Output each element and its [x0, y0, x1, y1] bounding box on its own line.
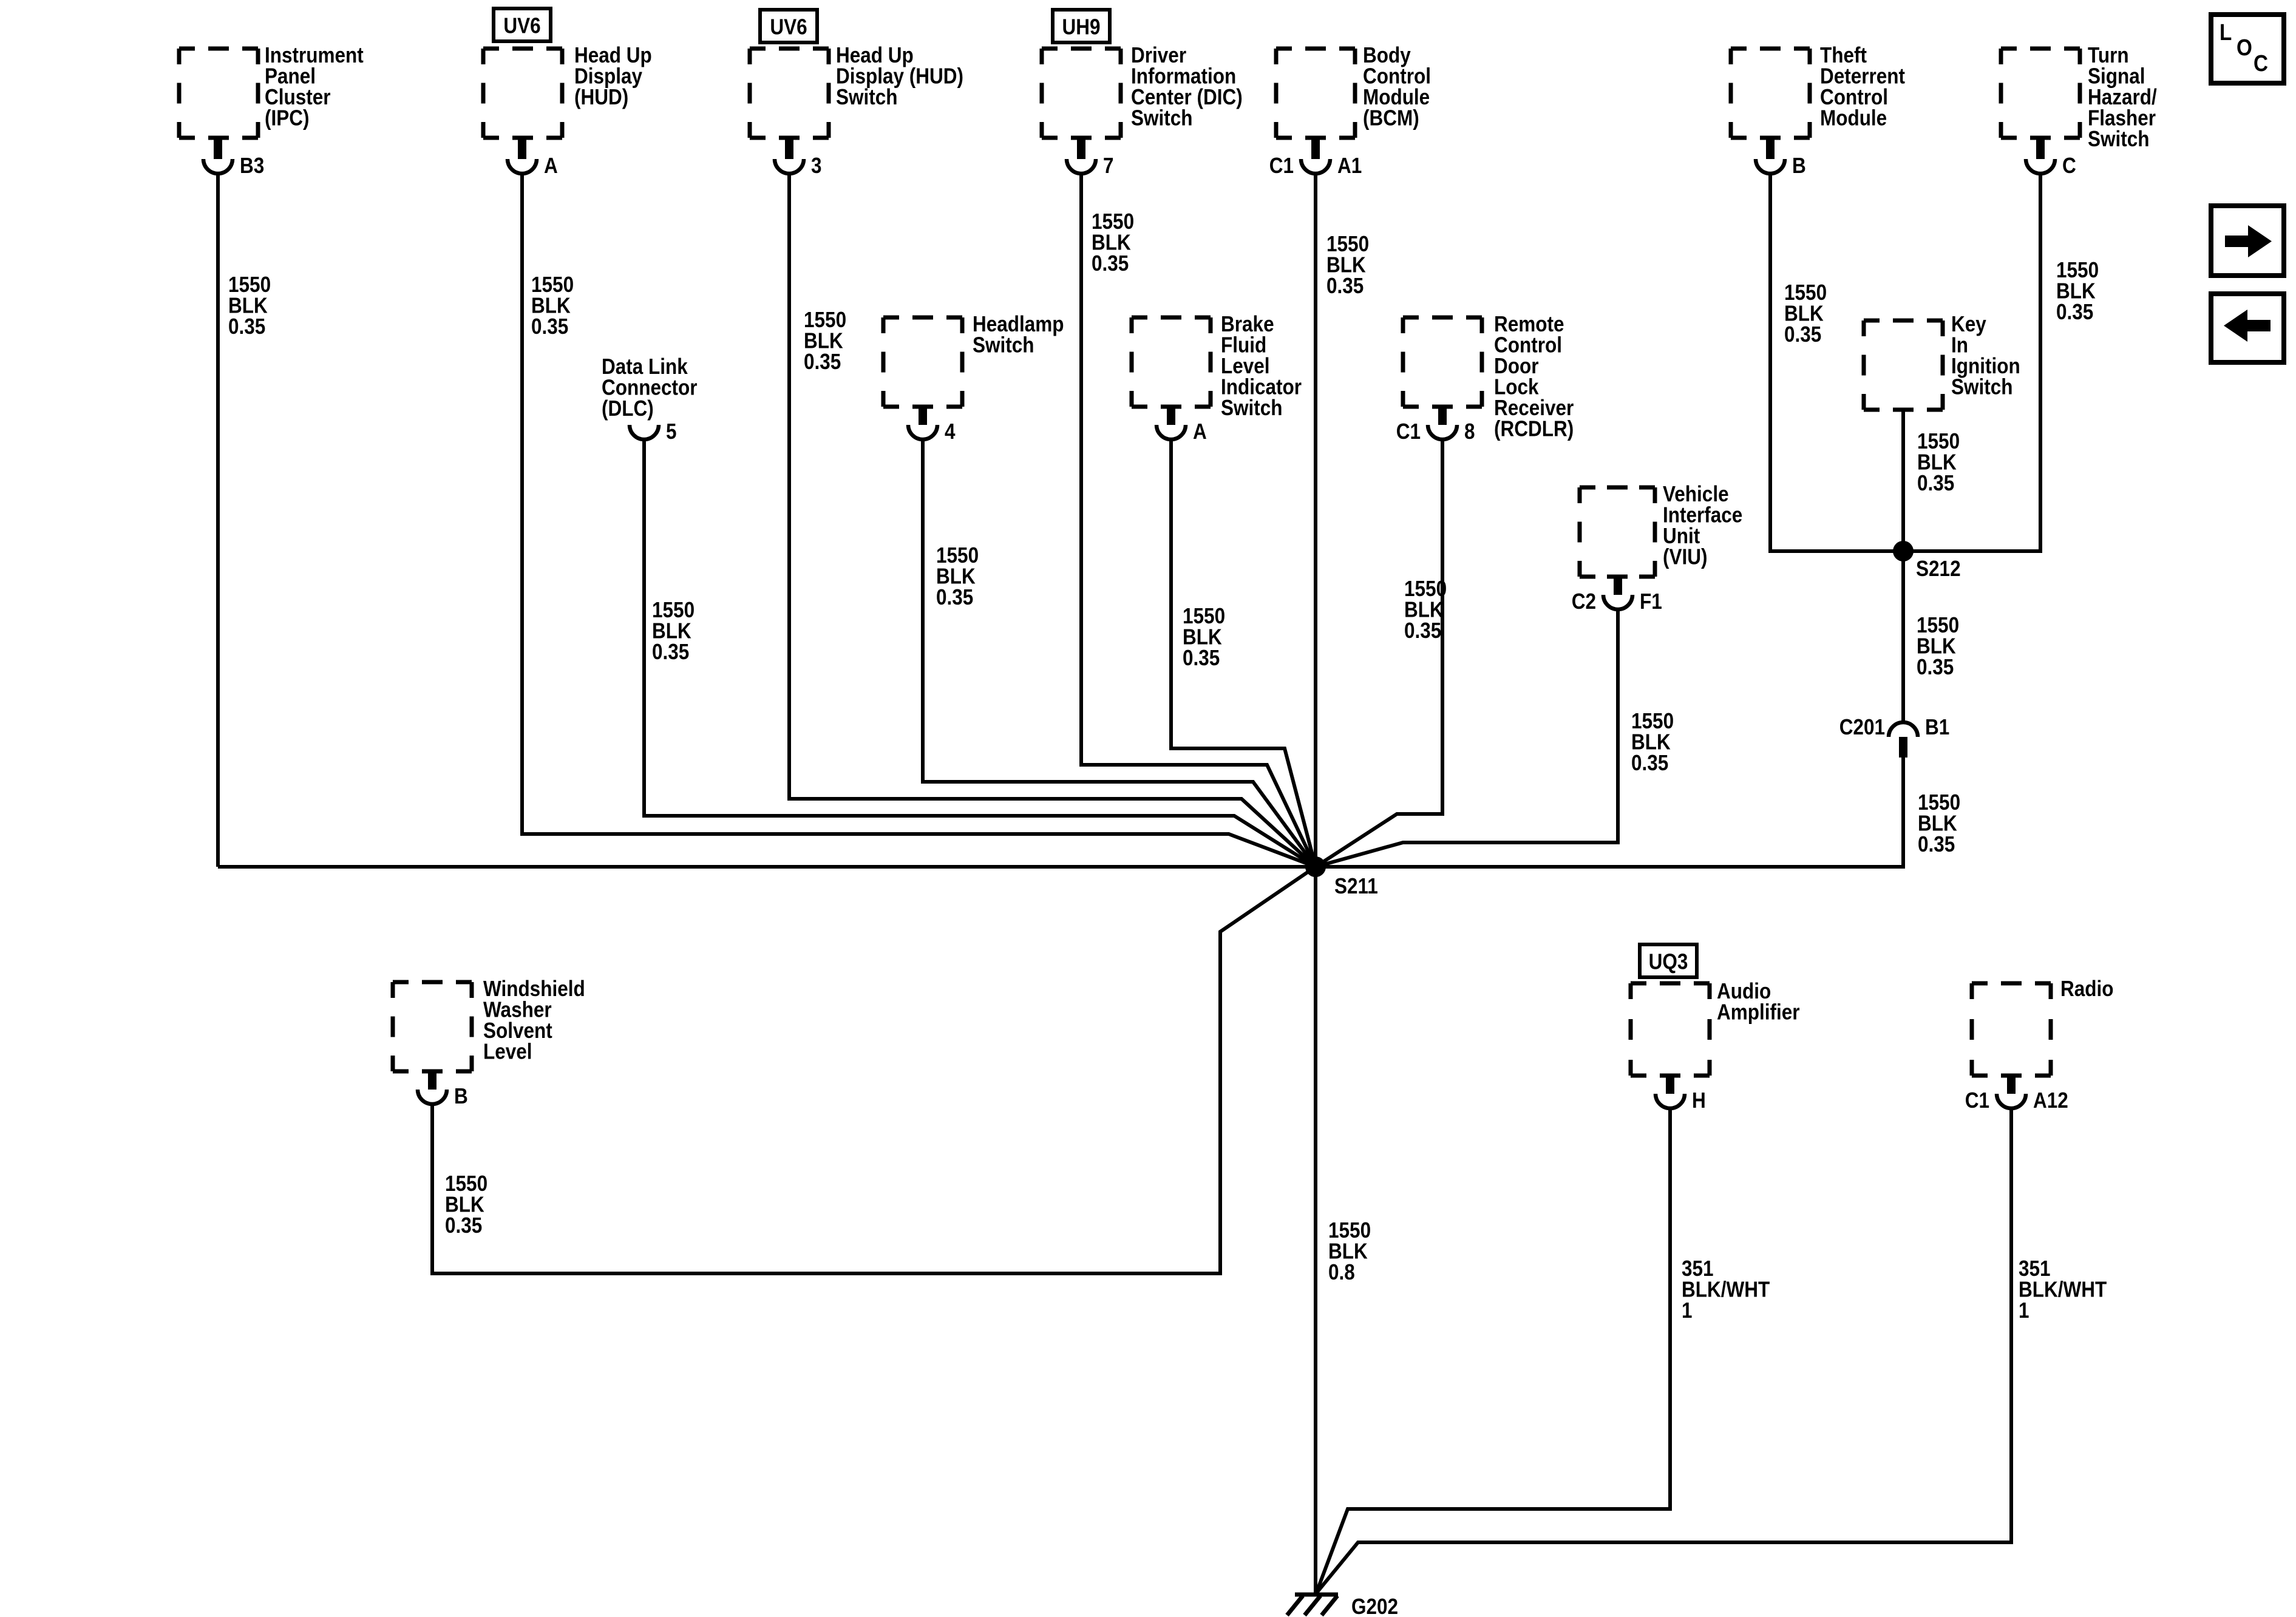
svg-text:(VIU): (VIU) — [1663, 544, 1708, 569]
svg-text:A: A — [544, 153, 558, 178]
svg-text:G202: G202 — [1351, 1594, 1398, 1617]
svg-text:0.35: 0.35 — [1631, 750, 1668, 775]
svg-text:C: C — [2254, 51, 2268, 76]
svg-text:UH9: UH9 — [1062, 15, 1101, 39]
svg-text:1: 1 — [1682, 1298, 1693, 1323]
svg-text:BLK/WHT: BLK/WHT — [1682, 1277, 1770, 1302]
svg-text:0.35: 0.35 — [228, 314, 265, 339]
svg-text:B1: B1 — [1925, 714, 1949, 739]
svg-text:0.35: 0.35 — [1918, 832, 1955, 856]
svg-text:0.35: 0.35 — [445, 1213, 482, 1238]
svg-text:B3: B3 — [240, 153, 264, 178]
svg-text:1: 1 — [2019, 1298, 2029, 1323]
svg-text:UV6: UV6 — [503, 13, 540, 38]
svg-text:7: 7 — [1103, 153, 1114, 178]
svg-text:0.35: 0.35 — [531, 314, 568, 339]
svg-text:Switch: Switch — [836, 84, 898, 109]
svg-text:0.35: 0.35 — [1404, 618, 1441, 643]
svg-text:A: A — [1193, 419, 1207, 444]
svg-text:0.35: 0.35 — [1784, 322, 1821, 347]
svg-text:S211: S211 — [1334, 873, 1378, 898]
svg-text:BLK/WHT: BLK/WHT — [2019, 1277, 2107, 1302]
svg-text:Switch: Switch — [1951, 375, 2013, 399]
svg-text:Module: Module — [1820, 106, 1887, 131]
svg-text:L: L — [2220, 20, 2232, 46]
svg-text:(IPC): (IPC) — [265, 106, 310, 131]
svg-text:Switch: Switch — [1131, 106, 1193, 131]
svg-text:0.35: 0.35 — [1917, 654, 1954, 679]
svg-text:Radio: Radio — [2060, 976, 2114, 1001]
svg-text:0.35: 0.35 — [1092, 251, 1129, 276]
svg-text:(BCM): (BCM) — [1363, 106, 1419, 131]
svg-text:0.35: 0.35 — [1917, 470, 1954, 495]
svg-text:UV6: UV6 — [770, 15, 807, 39]
svg-text:C1: C1 — [1396, 419, 1421, 444]
svg-text:Switch: Switch — [1221, 395, 1283, 420]
svg-text:S212: S212 — [1916, 556, 1961, 581]
svg-text:F1: F1 — [1640, 589, 1662, 614]
svg-text:0.35: 0.35 — [804, 349, 841, 374]
svg-text:5: 5 — [666, 419, 677, 444]
svg-text:C1: C1 — [1269, 153, 1294, 178]
svg-text:(HUD): (HUD) — [574, 84, 628, 109]
svg-text:8: 8 — [1464, 419, 1475, 444]
svg-text:O: O — [2237, 35, 2252, 61]
svg-text:C1: C1 — [1965, 1088, 1989, 1113]
svg-text:B: B — [1792, 153, 1806, 178]
svg-text:Switch: Switch — [973, 333, 1034, 358]
svg-text:(RCDLR): (RCDLR) — [1494, 416, 1574, 441]
svg-text:0.35: 0.35 — [1326, 273, 1364, 298]
svg-text:Level: Level — [483, 1039, 532, 1064]
svg-text:Amplifier: Amplifier — [1717, 1000, 1800, 1025]
svg-text:0.35: 0.35 — [1183, 645, 1220, 670]
svg-text:0.35: 0.35 — [936, 585, 973, 609]
svg-text:(DLC): (DLC) — [602, 396, 654, 421]
svg-text:0.35: 0.35 — [652, 639, 689, 664]
svg-text:B: B — [454, 1083, 468, 1108]
svg-text:Switch: Switch — [2088, 126, 2150, 151]
svg-text:H: H — [1692, 1088, 1706, 1113]
svg-text:A1: A1 — [1337, 153, 1362, 178]
svg-text:C2: C2 — [1572, 589, 1596, 614]
svg-text:C: C — [2062, 153, 2076, 178]
svg-text:0.35: 0.35 — [2056, 299, 2093, 324]
svg-text:3: 3 — [811, 153, 822, 178]
svg-text:A12: A12 — [2033, 1088, 2068, 1113]
svg-text:UQ3: UQ3 — [1649, 949, 1688, 974]
svg-text:C201: C201 — [1839, 714, 1885, 739]
svg-text:4: 4 — [945, 419, 956, 444]
svg-text:0.8: 0.8 — [1328, 1259, 1355, 1284]
